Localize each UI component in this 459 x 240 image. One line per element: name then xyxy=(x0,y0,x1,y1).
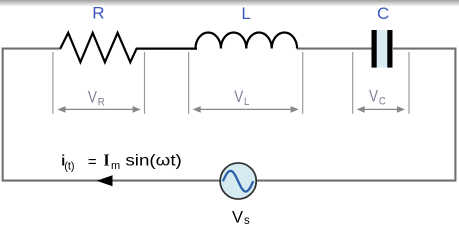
svg-text:C: C xyxy=(379,96,386,108)
svg-text:R: R xyxy=(92,4,104,23)
svg-text:C: C xyxy=(377,4,389,23)
svg-text:V: V xyxy=(88,88,97,107)
svg-text:L: L xyxy=(244,96,250,108)
svg-text:=: = xyxy=(88,154,97,171)
svg-text:R: R xyxy=(98,97,105,109)
svg-text:V: V xyxy=(232,208,243,226)
svg-text:I: I xyxy=(104,151,110,170)
svg-text:V: V xyxy=(234,88,243,107)
svg-text:sin(ωt): sin(ωt) xyxy=(125,153,181,170)
svg-text:(t): (t) xyxy=(64,160,74,172)
svg-text:s: s xyxy=(244,215,250,227)
svg-text:m: m xyxy=(111,160,120,172)
svg-text:L: L xyxy=(241,4,250,23)
svg-text:V: V xyxy=(369,87,378,106)
